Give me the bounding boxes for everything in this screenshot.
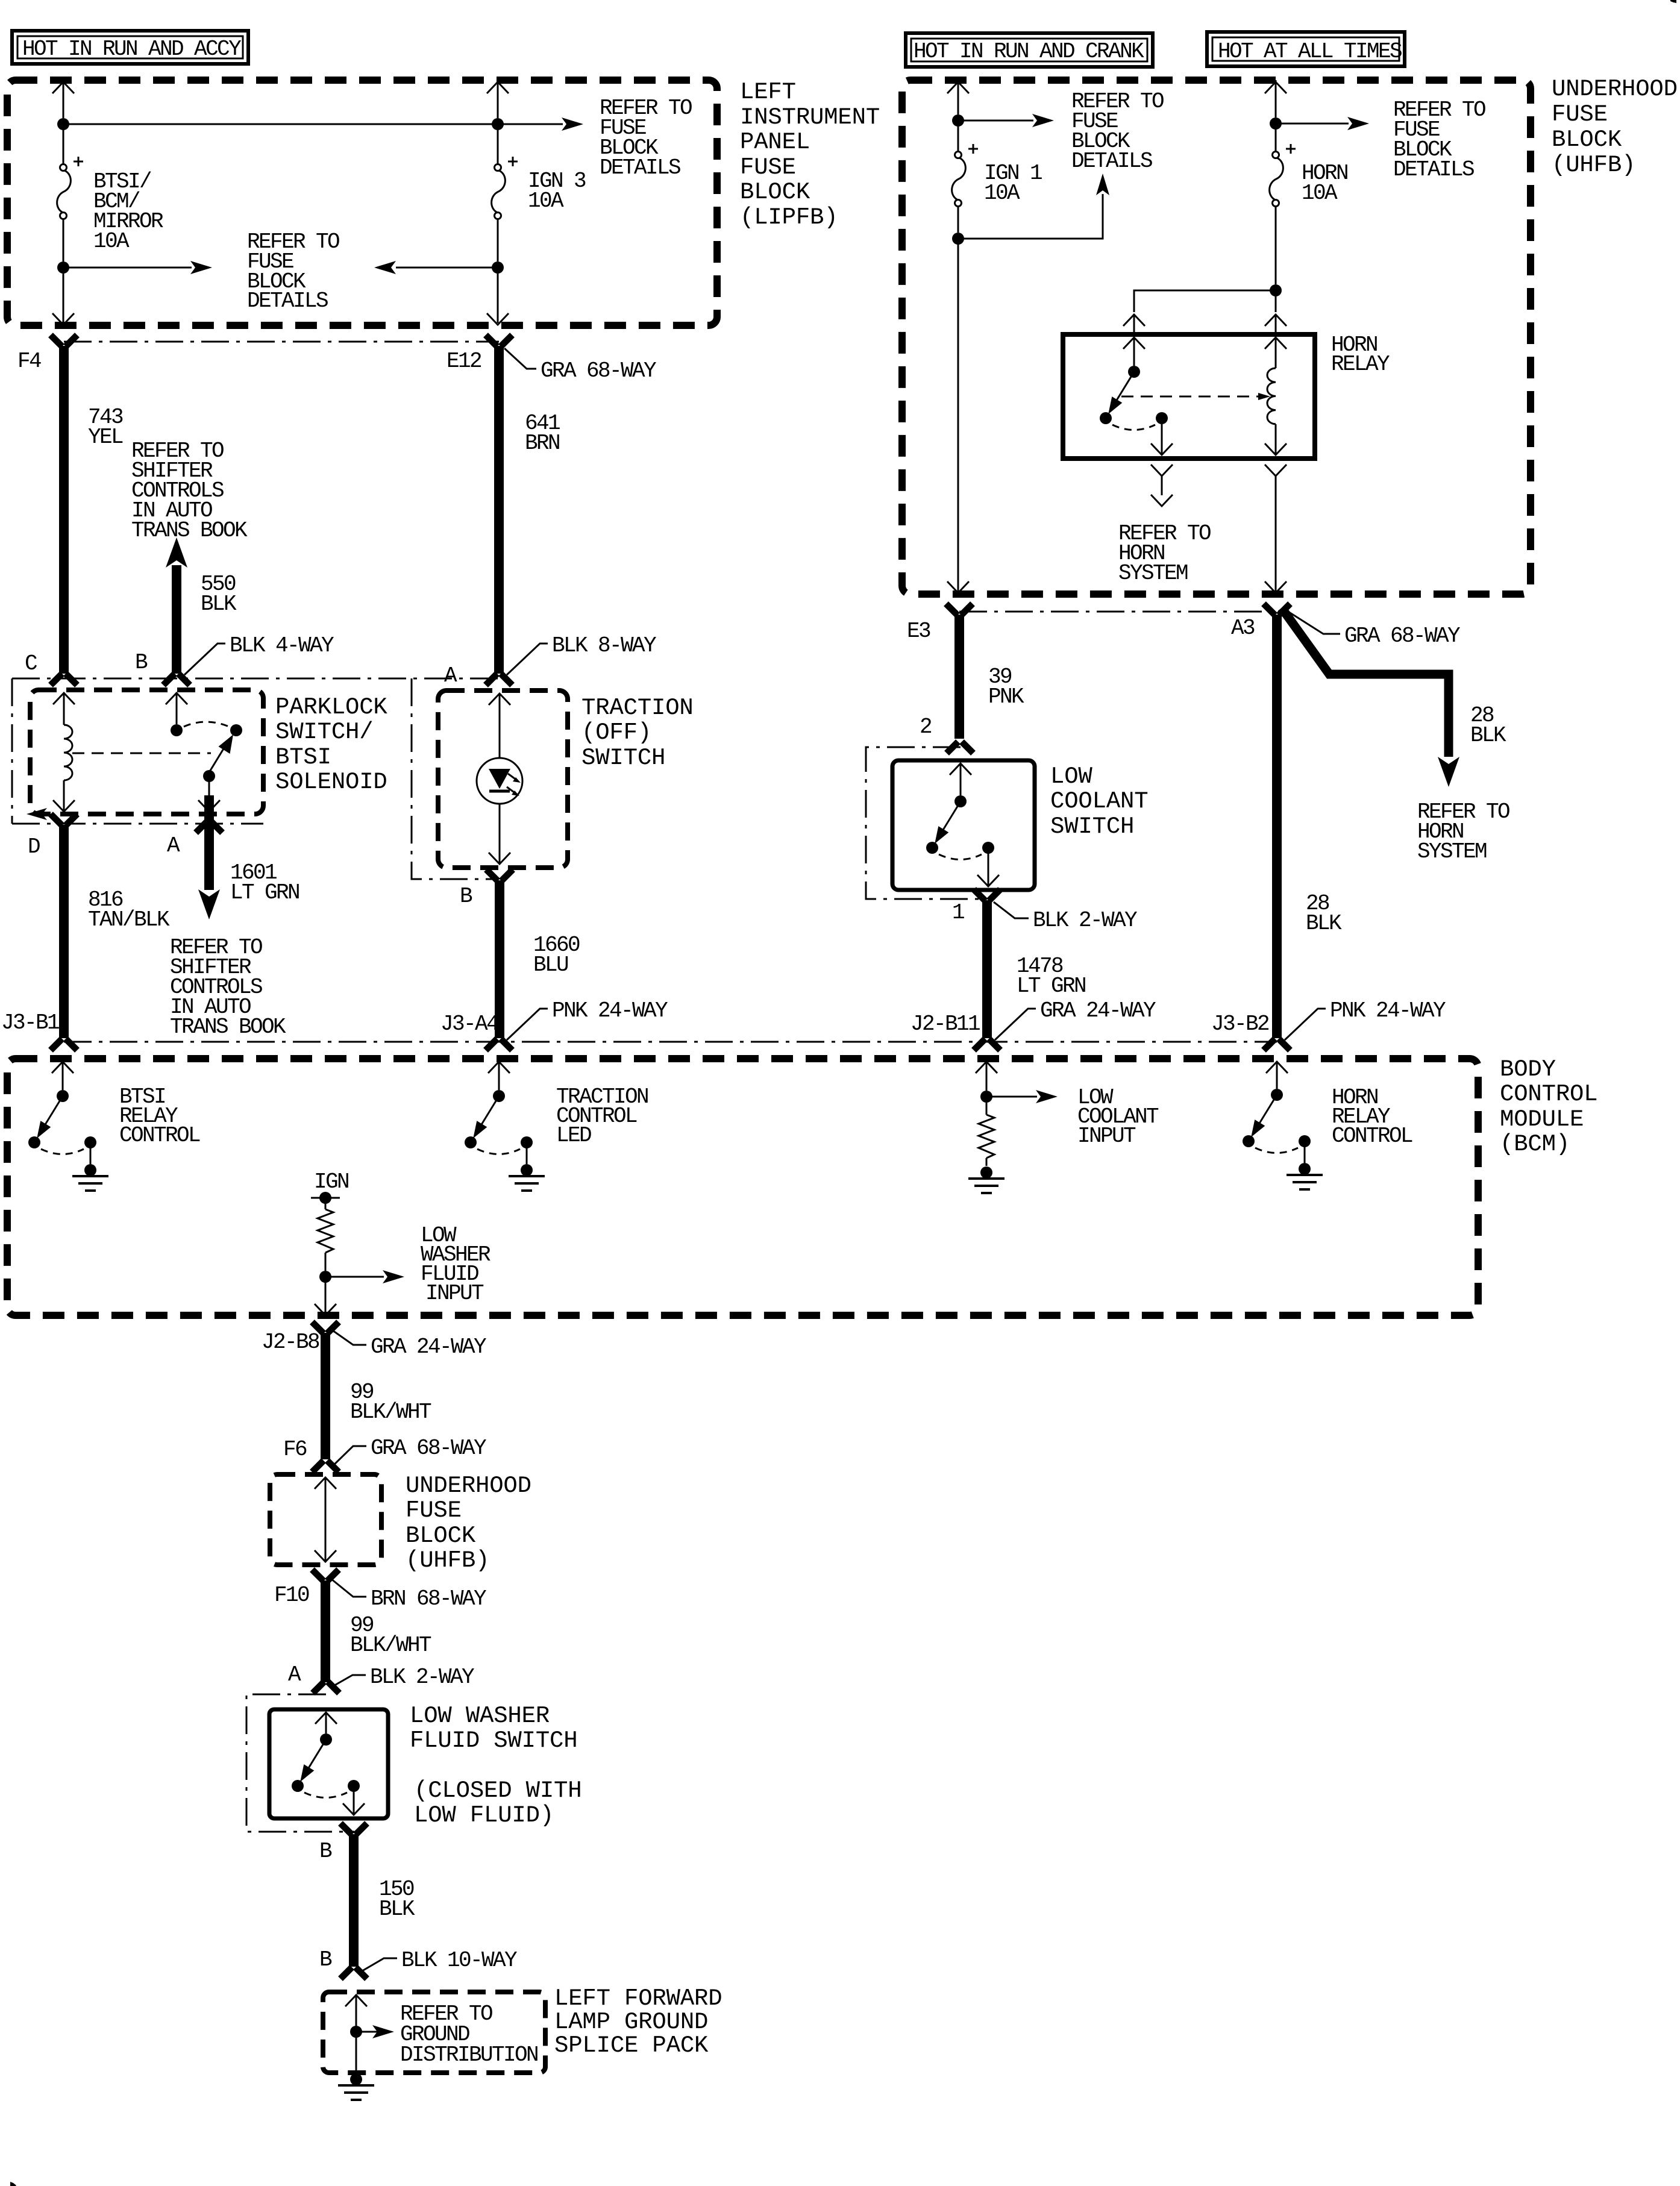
node: junction dot below BTSI fuse (57, 262, 69, 274)
low washer fluid switch S3 internals (315, 1712, 337, 1733)
label: 816 TAN/BLK (88, 888, 170, 932)
horn relay contact output (1151, 424, 1173, 455)
wire: IGN1 down to E3 (947, 239, 969, 593)
svg-text:INPUT: INPUT (425, 1281, 484, 1306)
node: junction dot on BTSI fuse feed (57, 118, 69, 130)
wire: link line between fuse feeds (63, 124, 498, 125)
label: 1660 BLU (533, 933, 580, 977)
wire: LIPFB feed to fuse IGN 3 (487, 80, 509, 164)
wire: arrow to fuse block details (IGN1) (958, 114, 1054, 127)
connector pin 2 (low coolant) (947, 742, 973, 753)
svg-text:UNDERHOOD: UNDERHOOD (1552, 76, 1678, 102)
svg-text:MODULE: MODULE (1500, 1106, 1584, 1133)
svg-text:J3-B2: J3-B2 (1211, 1012, 1269, 1036)
wire: below IGN3 fuse (487, 219, 509, 325)
svg-text:BLK 8-WAY: BLK 8-WAY (552, 633, 656, 658)
label: 39 PNK (988, 665, 1024, 709)
wire: UHFB feed to fuse HORN (1265, 80, 1287, 152)
connector row D/A dash-dot line (12, 823, 263, 825)
parklock switch / BTSI solenoid dashed box (30, 690, 263, 814)
svg-text:GRA 68-WAY: GRA 68-WAY (1344, 624, 1460, 648)
svg-text:B: B (319, 1947, 332, 1972)
label: 99 BLK/WHT (lower) (350, 1613, 431, 1658)
BCM traction control LED switch (488, 1062, 510, 1090)
connector B pin (163, 674, 190, 685)
svg-text:BLK 2-WAY: BLK 2-WAY (1033, 908, 1137, 933)
svg-text:FLUID SWITCH: FLUID SWITCH (410, 1727, 577, 1754)
label: 1478 LT GRN (1017, 954, 1085, 998)
IGN node dot and bar (311, 1192, 340, 1204)
svg-text:RELAY: RELAY (1331, 352, 1390, 377)
wire 99 BLK/WHT (upper) (321, 1333, 330, 1459)
connector A pin (washer) (313, 1682, 339, 1693)
leader + label: GRA 68-WAY at A3 (1285, 610, 1460, 648)
parklock switch S1 (166, 693, 242, 782)
connector J3-B1 pin (51, 1039, 77, 1050)
wire: arrow to low coolant input label (986, 1090, 1058, 1103)
svg-text:B: B (460, 884, 472, 909)
svg-text:A3: A3 (1231, 616, 1255, 640)
svg-text:TRACTION: TRACTION (581, 695, 694, 721)
horn relay contact entry chevron (1123, 337, 1145, 366)
svg-text:HOT IN RUN AND ACCY: HOT IN RUN AND ACCY (22, 37, 241, 61)
wire: arrow to fuse block details (HORN) (1276, 117, 1369, 130)
svg-text:B: B (319, 1839, 332, 1864)
svg-text:BLOCK: BLOCK (1552, 127, 1622, 153)
wire: arrow to ground distribution (356, 2025, 394, 2038)
svg-text:(BCM): (BCM) (1500, 1131, 1570, 1157)
label: 150 BLK (379, 1877, 415, 1921)
wire: horn fuse to relay coil pin (1265, 290, 1287, 333)
fuse IGN 1 10A (952, 144, 978, 207)
svg-text:LT GRN: LT GRN (1017, 974, 1085, 998)
connector D pin (51, 814, 77, 825)
svg-text:BLK/WHT: BLK/WHT (350, 1633, 431, 1658)
wire: relay coil return down to A3 (1265, 465, 1287, 593)
connector J3-B2 pin (1264, 1039, 1290, 1050)
svg-text:B: B (135, 650, 148, 675)
label: IGN 1 10A (984, 161, 1042, 205)
wire 150 BLK (349, 1834, 359, 1967)
svg-text:SOLENOID: SOLENOID (275, 769, 387, 795)
node: junction dot at horn relay branch (1270, 284, 1282, 296)
label: HORN 10A (1302, 161, 1347, 205)
label: 28 BLK (branch) (1470, 703, 1506, 748)
label: 743 YEL (88, 405, 123, 449)
wire: traction LED switch to ground (526, 1147, 528, 1164)
traction (OFF) switch dashed box (438, 691, 568, 868)
ground (horn relay control) (1287, 1163, 1323, 1189)
svg-text:1: 1 (952, 900, 964, 925)
leader + label: GRA 24-WAY at J2-B8 (331, 1329, 486, 1359)
LIPFB label (740, 79, 880, 231)
svg-text:PANEL: PANEL (740, 129, 810, 155)
svg-text:BLK: BLK (1470, 723, 1506, 748)
svg-text:E12: E12 (447, 349, 481, 374)
wire 28 BLK branch to horn system (1282, 608, 1459, 787)
page corner mark top-right (1670, 0, 1676, 3)
svg-text:YEL: YEL (88, 425, 123, 449)
svg-text:INSTRUMENT: INSTRUMENT (740, 104, 880, 131)
svg-text:(UHFB): (UHFB) (406, 1547, 489, 1574)
svg-text:FUSE: FUSE (740, 154, 796, 181)
svg-text:J2-B11: J2-B11 (911, 1012, 980, 1036)
svg-text:(LIPFB): (LIPFB) (740, 204, 838, 231)
svg-text:BRN: BRN (525, 431, 559, 456)
fuse IGN 3 10A (492, 157, 518, 219)
label: LOW COOLANT SWITCH (1050, 763, 1148, 840)
low washer fluid switch box (269, 1709, 388, 1818)
svg-text:IGN: IGN (314, 1170, 348, 1194)
connector F6 pin (312, 1461, 339, 1472)
svg-text:BLK 10-WAY: BLK 10-WAY (401, 1948, 517, 1973)
label: REFER TO SHIFTER CONTROLS IN AUTO TRANS BOOK (upper) (131, 439, 248, 543)
svg-text:GRA 24-WAY: GRA 24-WAY (371, 1335, 486, 1359)
svg-text:GRA 68-WAY: GRA 68-WAY (371, 1436, 486, 1461)
svg-text:CONTROL: CONTROL (1500, 1081, 1597, 1107)
svg-text:D: D (28, 835, 40, 859)
label: REFER TO HORN SYSTEM (branch) (1417, 800, 1509, 864)
svg-text:(UHFB): (UHFB) (1552, 152, 1635, 178)
body control module (BCM) dashed box (7, 1059, 1478, 1315)
svg-text:A: A (444, 663, 457, 688)
fuse HORN 10A (1270, 144, 1296, 207)
low coolant switch output (977, 853, 999, 886)
svg-text:DISTRIBUTION: DISTRIBUTION (400, 2043, 538, 2067)
connector row E3/A3 dash-dot line (959, 611, 1277, 613)
wire: branch to relay contact pin (1123, 290, 1276, 333)
svg-text:F4: F4 (17, 349, 41, 374)
svg-text:BLK 2-WAY: BLK 2-WAY (370, 1665, 474, 1690)
left forward lamp ground splice pack dashed box (323, 1992, 545, 2073)
ground (splice pack) (338, 2073, 374, 2100)
svg-text:BLK 4-WAY: BLK 4-WAY (230, 633, 334, 658)
wire 550 BLK arrow up (166, 537, 187, 674)
label: (CLOSED WITH LOW FLUID) (414, 1777, 581, 1829)
header box: HOT AT ALL TIMES (1207, 32, 1405, 66)
svg-text:FUSE: FUSE (1552, 101, 1608, 128)
label: UNDERHOOD FUSE BLOCK (UHFB) (406, 1473, 531, 1574)
UHFB label (1552, 76, 1678, 178)
horn relay coil (1265, 337, 1287, 455)
svg-text:HOT IN RUN AND CRANK: HOT IN RUN AND CRANK (914, 39, 1144, 64)
svg-text:SWITCH/: SWITCH/ (275, 719, 373, 745)
wire: L-shaped arrow up to fuse block details text (958, 174, 1109, 239)
ground (traction control LED) (509, 1164, 545, 1191)
connector B pin (washer) (340, 1823, 367, 1835)
svg-text:PNK: PNK (988, 684, 1024, 709)
svg-text:LOW: LOW (1050, 763, 1092, 790)
node: junction dot below IGN3 fuse (492, 262, 504, 274)
label: REFER TO HORN SYSTEM (below relay) (1118, 521, 1211, 586)
label: LOW COOLANT INPUT (1077, 1085, 1159, 1148)
washer switch connector bracket (246, 1694, 354, 1832)
solenoid coil L1 (53, 693, 75, 812)
connector bracket left of parklock (11, 678, 13, 824)
leader + label: BLK 4-WAY (184, 633, 334, 675)
label: REFER TO FUSE BLOCK DETAILS (lower left) (247, 230, 339, 313)
label: 1601 LT GRN (230, 860, 299, 905)
svg-text:J2-B8: J2-B8 (262, 1330, 319, 1355)
label: 99 BLK/WHT (upper) (350, 1380, 431, 1424)
svg-text:TRANS BOOK: TRANS BOOK (170, 1015, 286, 1039)
wire below IGN1 fuse (958, 206, 959, 233)
svg-text:LOW WASHER: LOW WASHER (410, 1703, 550, 1729)
leader + label: PNK 24-WAY at J3-B2 (1285, 998, 1446, 1040)
svg-text:CONTROL: CONTROL (1332, 1124, 1412, 1148)
svg-text:GRA 68-WAY: GRA 68-WAY (541, 359, 656, 383)
wire 816 TAN/BLK (59, 825, 69, 1038)
fuse BTSI/BCM/MIRROR 10A (57, 157, 83, 219)
connector F10 pin (312, 1570, 339, 1581)
wire below HORN fuse (1275, 206, 1277, 284)
connector A pin (traction) (486, 674, 512, 685)
svg-text:TAN/BLK: TAN/BLK (88, 907, 170, 932)
svg-text:PNK 24-WAY: PNK 24-WAY (552, 998, 668, 1023)
label: LOW WASHER FLUID INPUT (421, 1223, 491, 1306)
connector F4 (GRA 68-WAY) (51, 335, 77, 346)
washer switch output (343, 1790, 365, 1815)
svg-text:10A: 10A (528, 189, 564, 213)
leader + label: GRA 68-WAY at E12 (504, 348, 656, 383)
svg-text:DETAILS: DETAILS (1071, 149, 1152, 174)
svg-text:LED: LED (556, 1123, 591, 1148)
svg-text:SPLICE PACK: SPLICE PACK (554, 2032, 709, 2059)
wire: below BTSI fuse (52, 219, 74, 325)
connector J3-A4 pin (486, 1039, 512, 1050)
connector E3 (946, 604, 973, 615)
svg-text:LT GRN: LT GRN (230, 880, 299, 905)
BCM BTSI relay control switch (52, 1062, 74, 1090)
leader + label: PNK 24-WAY at J3-A4 (507, 998, 668, 1040)
label: REFER TO FUSE BLOCK DETAILS (top right of LIPFB) (600, 96, 692, 180)
left instrument panel fuse block (LIPFB) dashed box (7, 80, 717, 325)
svg-text:PNK 24-WAY: PNK 24-WAY (1330, 998, 1446, 1023)
svg-text:FUSE: FUSE (406, 1497, 462, 1524)
node: junction dot low coolant input (980, 1091, 992, 1103)
svg-text:TRANS BOOK: TRANS BOOK (131, 518, 248, 543)
svg-text:GRA 24-WAY: GRA 24-WAY (1040, 998, 1156, 1023)
connector pin 1 (low coolant) (974, 889, 1000, 901)
svg-text:BLOCK: BLOCK (740, 179, 810, 205)
ground (BTSI relay control) (72, 1164, 108, 1191)
label: HORN RELAY (1331, 333, 1390, 377)
svg-text:BODY: BODY (1500, 1056, 1556, 1083)
relay actuation dashed line (1121, 393, 1270, 400)
ground (low coolant input) (968, 1167, 1005, 1193)
wire 99 BLK/WHT (lower) (321, 1580, 330, 1682)
svg-text:DETAILS: DETAILS (1393, 157, 1474, 182)
wire 39 PNK (954, 615, 964, 739)
svg-text:LEFT: LEFT (740, 79, 796, 105)
svg-text:LOW FLUID): LOW FLUID) (414, 1802, 554, 1829)
splice pack internals (345, 1995, 367, 2075)
svg-text:SWITCH: SWITCH (1050, 813, 1134, 840)
wire: IGN branch down to J2-B8 (315, 1277, 336, 1315)
svg-text:BRN 68-WAY: BRN 68-WAY (371, 1586, 486, 1611)
low coolant connector bracket (866, 747, 987, 899)
node: junction dot on IGN3 fuse feed (492, 118, 504, 130)
connector J2-B8 pin (312, 1322, 339, 1333)
label: LEFT FORWARD LAMP GROUND SPLICE PACK (554, 1985, 722, 2059)
svg-text:BLK: BLK (1306, 911, 1342, 936)
low coolant switch box (892, 760, 1035, 890)
header box: HOT IN RUN AND ACCY (12, 31, 248, 64)
underhood fuse block (UHFB) dashed box (902, 80, 1531, 594)
resistor R2 (coolant input) (979, 1103, 994, 1166)
wire 28 BLK main (A3 to J3-B2) (1272, 615, 1282, 1038)
wire 1660 BLU (495, 880, 504, 1038)
svg-text:BLU: BLU (533, 953, 568, 977)
svg-text:2: 2 (920, 715, 932, 739)
svg-text:A: A (288, 1662, 301, 1687)
svg-text:SWITCH: SWITCH (581, 745, 665, 771)
leader + label: BLK 2-WAY at washer A (331, 1665, 474, 1690)
BCM horn relay control switch (1266, 1062, 1288, 1089)
wire: arrow from IGN3 fuse lower junction pointing left (374, 261, 498, 274)
wire 1601 LT GRN thick with arrow down (198, 795, 220, 919)
wire: arrow to fuse block details (lower left) (63, 261, 212, 274)
svg-text:10A: 10A (984, 181, 1020, 205)
resistor R1 (washer fluid pull-up) (318, 1198, 333, 1271)
solenoid coil pin C entry chevron (53, 693, 75, 704)
svg-text:BLOCK: BLOCK (406, 1523, 476, 1549)
leader + label: BLK 8-WAY (507, 633, 656, 675)
connector J2-B11 pin (974, 1039, 1000, 1050)
BCM low coolant input (976, 1062, 997, 1091)
wire: BTSI switch to ground (90, 1147, 92, 1164)
leader + label: GRA 68-WAY at F6 (331, 1436, 486, 1468)
svg-text:DETAILS: DETAILS (247, 289, 328, 313)
label: BTSI/BCM/MIRROR 10A (93, 169, 163, 254)
underhood fuse block pass-through dashed box (270, 1474, 381, 1565)
svg-text:A: A (167, 833, 180, 858)
connector A3 (GRA 68-WAY) (1264, 604, 1290, 615)
connector C pin (51, 674, 77, 685)
label: BTSI RELAY CONTROL (119, 1085, 200, 1148)
svg-text:SYSTEM: SYSTEM (1417, 839, 1487, 864)
wire: relay output arrow to horn system (1151, 465, 1173, 506)
svg-text:HOT AT ALL TIMES: HOT AT ALL TIMES (1218, 39, 1402, 64)
svg-text:(CLOSED WITH: (CLOSED WITH (414, 1777, 581, 1804)
svg-text:LEFT FORWARD: LEFT FORWARD (554, 1985, 722, 2012)
page corner mark bottom-left (10, 2182, 16, 2186)
wire: switch common to pin A (1601) inside box (208, 780, 210, 795)
wire 1478 LT GRN (982, 900, 992, 1038)
svg-text:E3: E3 (907, 619, 930, 644)
wire: UHFB feed to fuse IGN 1 (947, 80, 969, 152)
svg-text:J3-B1: J3-B1 (1, 1010, 59, 1035)
horn relay switch contacts (1100, 366, 1168, 430)
connector E12 (GRA 68-WAY) (486, 335, 512, 346)
svg-text:PARKLOCK: PARKLOCK (275, 694, 387, 721)
svg-text:10A: 10A (93, 229, 130, 254)
wire through UHFB pass-through (315, 1477, 336, 1562)
label: 641 BRN (525, 411, 560, 456)
wire: LIPFB feed to fuse BTSI/BCM/MIRROR (52, 80, 74, 164)
wire: arrow to fuse block details (top) (498, 117, 583, 131)
connector B pin (BLK 10-WAY) (340, 1967, 367, 1979)
node: junction dot below R1 (319, 1271, 331, 1283)
leader + label: BRN 68-WAY at F10 (331, 1579, 486, 1611)
svg-text:10A: 10A (1302, 181, 1338, 205)
svg-text:UNDERHOOD: UNDERHOOD (406, 1473, 531, 1499)
label: REFER TO FUSE BLOCK DETAILS (IGN1) (1071, 89, 1164, 174)
label: BODY CONTROL MODULE (BCM) (1500, 1056, 1597, 1157)
label: TRACTION CONTROL LED (556, 1085, 648, 1148)
connector row F4/E12 dash-dot line (64, 341, 499, 343)
header box: HOT IN RUN AND CRANK (906, 33, 1153, 67)
svg-text:BTSI: BTSI (275, 744, 331, 771)
svg-text:CONTROL: CONTROL (119, 1123, 200, 1148)
label: REFER TO GROUND DISTRIBUTION (400, 2002, 538, 2067)
label: 550 BLK (201, 572, 237, 616)
relay actuation dashed line (72, 753, 211, 754)
svg-text:INPUT: INPUT (1077, 1124, 1136, 1148)
svg-text:DETAILS: DETAILS (600, 155, 680, 180)
label: HORN RELAY CONTROL (1332, 1085, 1412, 1148)
label: REFER TO FUSE BLOCK DETAILS (HORN) (1393, 98, 1485, 182)
connector row C/B/A dash-dot line (12, 678, 499, 680)
leader + label: BLK 10-WAY (359, 1948, 517, 1973)
label: LOW WASHER FLUID SWITCH (410, 1703, 577, 1754)
wire 743 YEL (59, 346, 69, 674)
label: PARKLOCK SWITCH/ BTSI SOLENOID (275, 694, 387, 795)
svg-text:C: C (25, 651, 37, 676)
node: junction dot below IGN1 fuse (952, 233, 964, 245)
low coolant switch S2 internals (950, 763, 971, 795)
connector row J3/J2 dash-dot line (64, 1041, 1277, 1043)
svg-text:SYSTEM: SYSTEM (1118, 561, 1188, 586)
svg-text:COOLANT: COOLANT (1050, 788, 1148, 815)
leader + label: GRA 24-WAY at J2-B11 (995, 998, 1156, 1040)
node: splice junction dot (350, 2026, 362, 2038)
wire: arrow to low washer fluid input (325, 1270, 404, 1283)
svg-text:LAMP GROUND: LAMP GROUND (554, 2009, 708, 2035)
connector B pin (traction) (486, 869, 513, 881)
label: 28 BLK (main) (1306, 891, 1342, 936)
svg-text:F10: F10 (274, 1583, 309, 1608)
svg-text:F6: F6 (283, 1437, 307, 1462)
horn relay box (1063, 334, 1315, 459)
leader + label: BLK 2-WAY (low coolant) (994, 902, 1137, 933)
wire: horn relay control switch to ground (1304, 1145, 1306, 1163)
label: IGN 3 10A (528, 169, 586, 213)
svg-text:J3-A4: J3-A4 (440, 1012, 498, 1036)
traction connector bracket (412, 678, 493, 879)
label: REFER TO SHIFTER CONTROLS IN AUTO TRANS BOOK (lower) (170, 935, 286, 1039)
label: TRACTION (OFF) SWITCH (581, 695, 694, 771)
svg-text:BLK: BLK (201, 592, 237, 616)
traction LED lamp (477, 694, 522, 864)
svg-text:BLK/WHT: BLK/WHT (350, 1400, 431, 1424)
node: junction dot on IGN1 feed (952, 114, 964, 127)
arrowhead on parklock box lower-left corner (27, 808, 47, 820)
svg-text:BLK: BLK (379, 1897, 415, 1921)
svg-text:(OFF): (OFF) (581, 719, 651, 746)
connector A pin (1601) (196, 821, 222, 833)
node: junction dot on HORN feed (1270, 117, 1282, 130)
wire 641 BRN (494, 346, 504, 674)
